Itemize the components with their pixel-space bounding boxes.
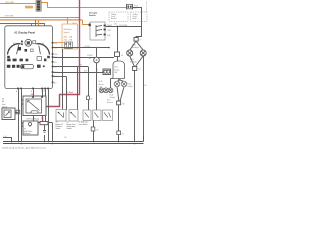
wire gray bus E xyxy=(0,24,45,29)
svg-text:Engine Oil: Engine Oil xyxy=(56,124,64,126)
svg-text:Y1: Y1 xyxy=(24,129,26,131)
gauge right icon xyxy=(47,56,50,58)
wire taillight down xyxy=(118,105,120,142)
svg-text:ORG WIR: ORG WIR xyxy=(5,2,15,4)
lamp E1 xyxy=(127,50,133,56)
wire orange bus C xyxy=(0,17,80,19)
svg-text:C D E: C D E xyxy=(41,91,45,93)
svg-text:L-10: L-10 xyxy=(4,136,7,138)
wire canister to rear lights xyxy=(110,79,112,89)
panel icons bottom row xyxy=(7,65,45,68)
svg-text:X18: X18 xyxy=(122,104,125,106)
svg-text:X9: X9 xyxy=(80,65,82,67)
wire drop x96 xyxy=(96,48,98,58)
headlight top connector xyxy=(134,38,138,42)
svg-text:Harness: Harness xyxy=(107,102,113,104)
headlight diamond wires xyxy=(130,41,144,66)
svg-text:X7: X7 xyxy=(140,40,142,42)
svg-text:ORG W: ORG W xyxy=(107,25,113,27)
A1 display panel box xyxy=(5,26,53,89)
wire right drop to headlight xyxy=(136,27,142,38)
S9 switch contacts xyxy=(65,42,73,48)
panel small sq right of circle xyxy=(33,41,36,44)
resistor R1 xyxy=(40,122,48,125)
dashed box J1 circuit breaker xyxy=(109,12,128,21)
svg-text:15 ORG: 15 ORG xyxy=(84,46,90,48)
ground marks x44 xyxy=(43,131,46,142)
wire drop x88 + connector xyxy=(88,67,90,97)
wire orange drop x38.5 to panel xyxy=(38,20,40,26)
wire drop x62 xyxy=(62,49,64,110)
lamp E5 xyxy=(121,81,127,87)
svg-text:S4: S4 xyxy=(56,122,58,124)
wire bus y72 xyxy=(53,72,103,74)
lamp E4 xyxy=(114,81,120,87)
wire orange drop x82 to S2 xyxy=(83,20,91,25)
svg-text:Sender: Sender xyxy=(67,128,73,130)
svg-text:X17: X17 xyxy=(138,69,141,71)
svg-text:Backup: Backup xyxy=(99,84,104,86)
svg-text:Switch: Switch xyxy=(64,31,70,34)
connector X1 xyxy=(36,0,41,11)
wire relay to solenoid xyxy=(33,116,35,122)
svg-text:LX255 wiring schematic - dash: LX255 wiring schematic - dash lights fue… xyxy=(2,147,46,150)
svg-text:X9: X9 xyxy=(91,98,93,100)
wire panel pin drops xyxy=(18,89,20,141)
wire orange drop x67.5 to brake switch xyxy=(67,18,69,25)
svg-text:X19: X19 xyxy=(96,130,99,132)
wire crimson to resistor xyxy=(42,116,44,123)
taillight diamond xyxy=(117,79,124,102)
wire orange bus D thick xyxy=(0,19,82,21)
svg-text:40 Red: 40 Red xyxy=(66,92,74,94)
wire drop x66 xyxy=(66,77,68,111)
rear work light lamps xyxy=(99,88,113,93)
svg-text:B: B xyxy=(31,91,32,93)
svg-text:M1: M1 xyxy=(96,70,98,72)
panel icon left mid xyxy=(18,47,21,50)
gauge right arc xyxy=(37,44,50,55)
wire bus y57 xyxy=(53,57,114,59)
dashed box J2 circuit breaker xyxy=(131,12,148,21)
svg-text:Backup: Backup xyxy=(114,69,119,71)
panel icon mid mid xyxy=(25,49,28,52)
svg-text:A1 Display Panel: A1 Display Panel xyxy=(14,30,35,34)
backup alarm connector xyxy=(115,52,120,57)
lamp E2 xyxy=(140,50,146,56)
wire bus y47.5 xyxy=(53,47,109,49)
svg-text:J30: J30 xyxy=(114,24,117,26)
wire x52 drop xyxy=(52,123,54,142)
svg-text:ORG WIRE: ORG WIRE xyxy=(119,25,127,27)
connector X20 xyxy=(117,131,121,135)
circuit breaker F1 xyxy=(127,4,133,10)
gauge left arc xyxy=(8,44,21,55)
S9 brake switch box xyxy=(62,24,78,49)
svg-text:X6: X6 xyxy=(121,55,123,57)
wire bus y76 xyxy=(53,76,66,78)
S2 light switch box xyxy=(90,22,105,40)
wire orange stub to S9 xyxy=(53,42,65,44)
wire drop x77 xyxy=(77,67,79,111)
svg-text:10 WHT: 10 WHT xyxy=(87,55,93,57)
svg-text:Pressure: Pressure xyxy=(56,126,62,128)
K2 fuel relay box xyxy=(23,96,46,116)
wire bus y66.5 xyxy=(53,66,88,68)
wire orange bus B xyxy=(41,3,126,8)
wire gray drop x35.5 xyxy=(35,20,37,26)
headlight bottom connector xyxy=(133,67,137,71)
svg-text:1-B: 1-B xyxy=(64,137,66,139)
wire drop x117 to alarm xyxy=(117,27,119,53)
svg-text:+15B: +15B xyxy=(107,30,111,32)
svg-text:Switch: Switch xyxy=(89,14,96,17)
svg-text:B1: B1 xyxy=(2,99,4,101)
connector X19 xyxy=(91,127,95,131)
wire right edge vertical xyxy=(143,56,145,142)
taillight bottom connector xyxy=(117,101,121,105)
bottom switch box S6 xyxy=(83,110,91,121)
panel icons row xyxy=(7,57,46,62)
panel right edge pins xyxy=(52,42,54,83)
svg-text:W-9: W-9 xyxy=(84,70,87,72)
node J30 junction xyxy=(117,26,119,28)
wire sensor to x18 xyxy=(15,112,19,114)
wire crimson main xyxy=(46,0,80,107)
wire S2 out to right xyxy=(106,26,142,28)
panel center icon circle xyxy=(25,39,32,46)
bottom switch box S7 xyxy=(93,110,101,121)
svg-text:32Y: 32Y xyxy=(54,62,57,64)
gauge left icon xyxy=(7,56,10,58)
svg-text:Fuel Pull In: Fuel Pull In xyxy=(24,131,32,133)
Y1 solenoid box xyxy=(23,121,38,135)
horn circle A3 xyxy=(94,57,100,63)
svg-text:S2 Light: S2 Light xyxy=(89,11,98,14)
svg-text:K2 Fuel Relay: K2 Fuel Relay xyxy=(27,119,40,121)
svg-text:Solenoid: Solenoid xyxy=(24,133,30,135)
svg-text:B+: B+ xyxy=(145,85,147,87)
svg-text:25A →15A: 25A →15A xyxy=(64,35,73,38)
svg-text:21A →15B: 21A →15B xyxy=(64,38,73,41)
label tag orange xyxy=(25,6,33,9)
wire gray drop x31.5 xyxy=(31,24,33,26)
bottom switch box S5 xyxy=(69,110,78,122)
wire gray from breaker xyxy=(133,8,142,27)
svg-text:B2: B2 xyxy=(67,122,69,124)
ground bus lines xyxy=(3,141,144,143)
panel lcd pill xyxy=(21,64,34,68)
ground stub left xyxy=(3,138,12,142)
svg-text:30W: 30W xyxy=(54,54,58,56)
motor box M1 xyxy=(103,69,111,75)
wire headlight down xyxy=(134,71,136,142)
B1 fuel sensor box xyxy=(2,108,15,120)
svg-text:ORG WIR: ORG WIR xyxy=(5,16,15,18)
svg-text:Rear: Rear xyxy=(107,100,111,102)
svg-text:X2: X2 xyxy=(122,133,124,135)
wire orange bus A xyxy=(0,3,36,5)
svg-text:MC-2: MC-2 xyxy=(114,67,118,69)
panel bottom pins xyxy=(17,88,49,90)
svg-text:Engine Cool: Engine Cool xyxy=(67,124,76,126)
bottom switch box S4 xyxy=(56,110,66,122)
bus junction dots xyxy=(11,141,136,145)
backup alarm canister xyxy=(113,61,125,79)
bottom switch box S8 xyxy=(102,110,112,121)
